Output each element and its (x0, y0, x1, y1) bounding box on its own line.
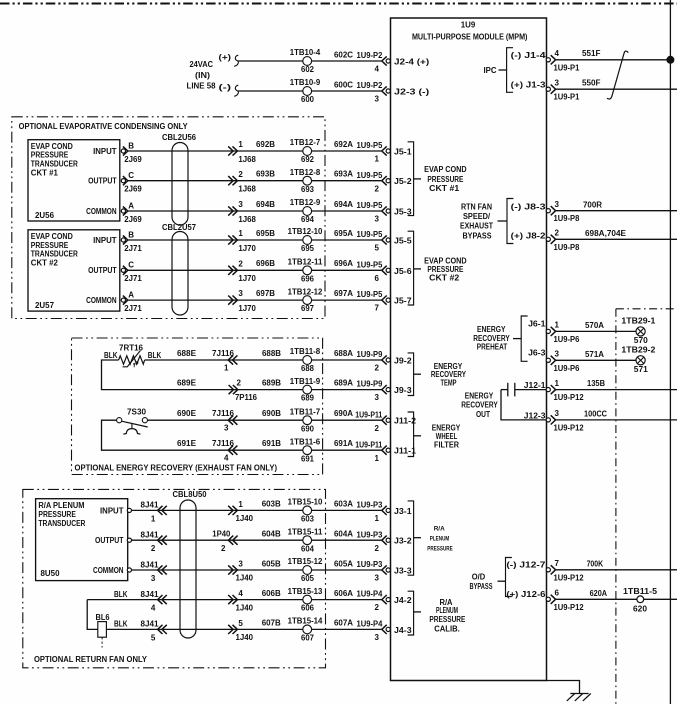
svg-text:24VAC: 24VAC (190, 60, 214, 69)
wire 100CC (556, 409, 677, 419)
svg-text:3: 3 (555, 200, 560, 209)
MPM pin J11-1 (355, 440, 416, 463)
svg-text:2J71: 2J71 (124, 244, 142, 253)
svg-text:2: 2 (375, 424, 380, 433)
pin C 2J71 (121, 261, 142, 284)
svg-text:8J41: 8J41 (141, 620, 160, 629)
wire 603A (312, 500, 382, 511)
svg-text:A: A (128, 201, 134, 210)
MPM pin (+) J12-6 (506, 589, 584, 612)
wire 691A (312, 439, 382, 450)
wire right bus (669, 0, 671, 704)
wire 696A (312, 259, 382, 270)
wire 600 (238, 90, 303, 92)
svg-text:1TB11-8: 1TB11-8 (290, 347, 321, 356)
terminal 1TB12-7 (290, 138, 321, 164)
svg-text:607B: 607B (262, 619, 281, 628)
node 24VAC (-) (219, 83, 239, 96)
wire 694B (128, 200, 303, 211)
svg-text:135B: 135B (587, 379, 605, 388)
svg-text:1TB29-2: 1TB29-2 (621, 345, 656, 354)
svg-text:1TB10-4: 1TB10-4 (290, 48, 321, 57)
pin B 2J71 (121, 230, 142, 253)
svg-text:1J70: 1J70 (238, 274, 256, 283)
svg-text:1: 1 (555, 321, 560, 330)
bracket IPC (484, 48, 514, 93)
svg-text:1: 1 (238, 500, 243, 509)
terminal 1TB15-10 (288, 498, 323, 524)
terminal 1TB15-14 (288, 617, 323, 643)
svg-text:TEMP: TEMP (441, 378, 457, 387)
wire 700K (556, 559, 677, 569)
svg-text:695A: 695A (334, 229, 353, 238)
terminal 1TB12-10 (288, 227, 323, 253)
svg-text:J3-2: J3-2 (394, 537, 412, 546)
transducer 8U50 (36, 499, 128, 581)
svg-text:550F: 550F (582, 79, 601, 88)
MPM pin (+) J1-3 (511, 78, 580, 101)
svg-text:7S30: 7S30 (127, 407, 147, 416)
svg-text:602C: 602C (334, 50, 353, 59)
svg-text:WHEEL: WHEEL (436, 432, 458, 441)
pin A 2J71 (121, 290, 142, 313)
svg-text:2: 2 (375, 364, 380, 373)
svg-text:2: 2 (238, 170, 243, 179)
wire 695A (312, 229, 382, 240)
svg-text:CBL8U50: CBL8U50 (173, 490, 208, 499)
svg-text:1: 1 (238, 229, 243, 238)
contact ENERGY RECOVERY OUT (501, 383, 546, 420)
svg-text:700K: 700K (587, 559, 604, 568)
wire 696B (128, 259, 303, 270)
svg-text:2U57: 2U57 (35, 301, 55, 310)
svg-text:1U9-P12: 1U9-P12 (554, 393, 585, 402)
svg-text:PRESSURE: PRESSURE (427, 265, 464, 274)
svg-text:1U9-P8: 1U9-P8 (554, 214, 580, 223)
ground (547, 681, 591, 701)
svg-text:1TB11-9: 1TB11-9 (290, 377, 321, 386)
svg-text:1TB12-12: 1TB12-12 (288, 287, 323, 296)
svg-text:691: 691 (301, 454, 314, 463)
svg-text:1TB15-11: 1TB15-11 (288, 527, 323, 536)
svg-text:TRANSDUCER: TRANSDUCER (31, 160, 78, 169)
svg-text:EVAP COND: EVAP COND (31, 142, 73, 151)
svg-text:1U9-P3: 1U9-P3 (357, 560, 383, 569)
svg-text:604: 604 (301, 544, 314, 553)
svg-text:7P116: 7P116 (235, 393, 258, 402)
wire 688E (145, 349, 303, 360)
svg-text:3: 3 (555, 409, 560, 418)
svg-text:OPTIONAL ENERGY RECOVERY (EXHA: OPTIONAL ENERGY RECOVERY (EXHAUST FAN ON… (75, 463, 278, 472)
connector 7J116 pin 4 (212, 439, 237, 463)
wire 689E (102, 351, 303, 390)
svg-text:OPTIONAL RETURN FAN ONLY: OPTIONAL RETURN FAN ONLY (34, 655, 148, 664)
connector 7J116 pin 3 (212, 409, 237, 433)
svg-text:694: 694 (301, 215, 314, 224)
svg-text:BLK: BLK (114, 590, 128, 599)
svg-text:J2-4 (+): J2-4 (+) (394, 57, 430, 66)
terminal 1TB12-11 (288, 257, 323, 283)
svg-text:1U9-P4: 1U9-P4 (357, 619, 383, 628)
svg-text:603B: 603B (262, 500, 281, 509)
svg-text:1J70: 1J70 (238, 304, 256, 313)
svg-text:693A: 693A (334, 170, 353, 179)
wire 607 BLK (106, 620, 302, 643)
svg-text:1TB12-7: 1TB12-7 (290, 138, 321, 147)
svg-text:COMMON: COMMON (86, 296, 117, 305)
svg-text:1U9-P4: 1U9-P4 (357, 590, 383, 599)
svg-text:3: 3 (151, 574, 156, 583)
svg-text:INPUT: INPUT (93, 236, 117, 245)
svg-text:1TB15-12: 1TB15-12 (288, 557, 323, 566)
transducer 2U57 (28, 230, 120, 311)
svg-text:OUTPUT: OUTPUT (88, 266, 117, 275)
wire 571A (556, 350, 637, 360)
svg-text:692B: 692B (256, 140, 275, 149)
wire 620A (556, 589, 677, 599)
wire 690A (312, 409, 382, 420)
svg-text:3: 3 (375, 633, 380, 642)
svg-text:693B: 693B (256, 170, 275, 179)
svg-text:CBL2U57: CBL2U57 (162, 223, 197, 232)
svg-text:4: 4 (375, 65, 380, 74)
svg-text:1J40: 1J40 (236, 633, 254, 642)
lamp BL6 (96, 613, 110, 648)
MPM pin J2-3 (-) (357, 81, 430, 104)
wire 600C (312, 80, 382, 91)
terminal 1TB15-13 (288, 587, 323, 613)
wire 135B (556, 379, 677, 389)
svg-text:OPTIONAL EVAPORATIVE CONDENSIN: OPTIONAL EVAPORATIVE CONDENSING ONLY (19, 122, 189, 131)
svg-text:J6-1: J6-1 (528, 320, 546, 329)
svg-text:1TB12-9: 1TB12-9 (290, 198, 321, 207)
svg-text:2J69: 2J69 (124, 185, 142, 194)
optional evaporative condensing boundary (12, 117, 325, 319)
pin 1 8J41 (127, 501, 303, 524)
MPM pin J6-3 (528, 349, 580, 373)
svg-text:605A: 605A (334, 559, 353, 568)
svg-text:551F: 551F (582, 49, 601, 58)
svg-text:EXHAUST: EXHAUST (460, 222, 493, 231)
bracket EVAP COND PRESSURE CKT #2 (408, 231, 467, 305)
svg-text:696B: 696B (256, 259, 275, 268)
svg-text:A: A (128, 290, 134, 299)
svg-text:J5-7: J5-7 (394, 297, 412, 306)
svg-text:694B: 694B (256, 200, 275, 209)
svg-text:TRANSDUCER: TRANSDUCER (31, 250, 78, 259)
svg-text:2U56: 2U56 (35, 211, 55, 220)
svg-text:1U9-P12: 1U9-P12 (554, 573, 585, 582)
svg-text:1U9-P12: 1U9-P12 (554, 603, 585, 612)
transducer 2U56 (28, 140, 120, 221)
node 24VAC (+) (219, 53, 239, 66)
svg-text:692A: 692A (334, 140, 353, 149)
svg-text:C: C (128, 261, 134, 270)
MPM pin (-) J12-7 (506, 559, 584, 582)
svg-text:605: 605 (301, 574, 314, 583)
svg-text:1U9-P12: 1U9-P12 (554, 423, 585, 432)
svg-text:INPUT: INPUT (93, 147, 117, 156)
svg-text:691B: 691B (262, 439, 281, 448)
svg-text:J4-2: J4-2 (394, 596, 412, 605)
svg-text:2: 2 (375, 544, 380, 553)
boundary 1TB29 terminal strip (616, 309, 675, 704)
svg-text:CKT #1: CKT #1 (429, 184, 460, 193)
svg-text:4: 4 (224, 454, 229, 463)
MPM pin J5-2 (357, 171, 413, 194)
svg-text:RECOVERY: RECOVERY (461, 401, 498, 410)
svg-text:ENERGY: ENERGY (432, 423, 461, 432)
wire 694A (312, 200, 382, 211)
svg-text:J2-3 (-): J2-3 (-) (394, 87, 430, 96)
svg-text:B: B (128, 141, 134, 150)
pin 2 8J41 (127, 530, 303, 553)
svg-text:J9-3: J9-3 (394, 386, 412, 395)
svg-text:1U9-P9: 1U9-P9 (357, 350, 383, 359)
svg-text:COMMON: COMMON (86, 207, 117, 216)
svg-text:BL6: BL6 (96, 613, 110, 622)
svg-text:606: 606 (301, 604, 314, 613)
svg-text:ENERGY: ENERGY (465, 391, 494, 400)
terminal 1TB12-8 (290, 168, 321, 194)
svg-text:620: 620 (633, 605, 648, 614)
MPM pin J4-3 (357, 619, 413, 642)
svg-text:688A: 688A (334, 349, 353, 358)
MPM pin J2-4 (+) (357, 51, 430, 74)
MPM pin J3-1 (357, 500, 413, 523)
connector 8J41 pin 5 (158, 625, 167, 634)
svg-text:5: 5 (238, 619, 243, 628)
terminal 1TB11-7 (290, 407, 321, 433)
wire 693B (128, 170, 303, 181)
svg-text:INPUT: INPUT (100, 506, 124, 515)
connector 1J68 pin 1 (228, 140, 256, 164)
pin B 2J69 (121, 141, 142, 164)
svg-text:7J116: 7J116 (212, 439, 235, 448)
wire 689A (312, 378, 382, 389)
svg-text:606A: 606A (334, 589, 353, 598)
svg-text:2J69: 2J69 (124, 155, 142, 164)
svg-text:OUT: OUT (476, 410, 490, 419)
svg-text:690A: 690A (334, 409, 353, 418)
svg-text:1TB11-6: 1TB11-6 (290, 437, 321, 446)
connector 1J40 pin 4 (228, 589, 253, 612)
terminal 1TB29-1 (621, 316, 656, 345)
connector 1J40 pin 1 (228, 500, 253, 523)
bracket ENERGY WHEEL FILTER (408, 412, 461, 457)
svg-text:600: 600 (301, 95, 314, 104)
svg-text:604B: 604B (262, 529, 281, 538)
svg-text:1TB29-1: 1TB29-1 (621, 316, 656, 325)
svg-text:(-) J1-4: (-) J1-4 (511, 51, 547, 60)
svg-text:689E: 689E (177, 378, 197, 387)
svg-text:CKT #2: CKT #2 (31, 258, 59, 267)
svg-text:B: B (128, 230, 134, 239)
svg-text:700R: 700R (583, 200, 602, 209)
svg-text:J3-3: J3-3 (394, 566, 412, 575)
connector 1P40 pin 2 (212, 530, 237, 553)
svg-text:691A: 691A (334, 439, 353, 448)
svg-text:3: 3 (555, 350, 560, 359)
svg-text:1U9-P6: 1U9-P6 (554, 364, 580, 373)
svg-text:2: 2 (375, 184, 380, 193)
svg-text:1: 1 (375, 514, 380, 523)
wire 695B (128, 229, 303, 240)
svg-text:BYPASS: BYPASS (470, 582, 493, 591)
cable CBL2U56 (162, 133, 197, 225)
terminal 1TB12-12 (288, 287, 323, 313)
MPM pin J12-3 (524, 409, 584, 432)
bracket R/A PLENUM PRESSURE CALIB. (408, 591, 466, 635)
svg-text:696: 696 (301, 274, 314, 283)
svg-text:1TB12-11: 1TB12-11 (288, 257, 323, 266)
svg-text:1TB15-10: 1TB15-10 (288, 498, 323, 507)
svg-text:BYPASS: BYPASS (463, 231, 493, 240)
svg-text:1TB12-8: 1TB12-8 (290, 168, 321, 177)
svg-text:1J40: 1J40 (236, 514, 254, 523)
svg-text:PRESSURE: PRESSURE (31, 241, 69, 250)
svg-text:3: 3 (238, 200, 243, 209)
svg-text:696A: 696A (334, 259, 353, 268)
label ENERGY RECOVERY OUT (461, 391, 498, 419)
svg-text:600C: 600C (334, 80, 353, 89)
svg-text:2: 2 (221, 544, 226, 553)
svg-text:J5-5: J5-5 (394, 236, 412, 245)
svg-text:8J41: 8J41 (141, 501, 160, 510)
svg-text:CKT #1: CKT #1 (31, 168, 59, 177)
svg-text:607: 607 (301, 633, 314, 642)
MPM pin J12-1 (524, 379, 584, 402)
svg-text:(+) J1-3: (+) J1-3 (511, 81, 546, 90)
wire 551F (556, 49, 671, 60)
wire 607A (312, 619, 382, 630)
svg-text:BLK: BLK (104, 351, 118, 360)
svg-text:(IN): (IN) (195, 71, 210, 80)
connector 1J70 pin 3 (228, 289, 256, 313)
wire 690E (148, 409, 303, 420)
svg-text:692: 692 (301, 155, 314, 164)
svg-text:605B: 605B (262, 559, 281, 568)
svg-text:606B: 606B (262, 589, 281, 598)
bracket EVAP COND PRESSURE CKT #1 (408, 142, 467, 216)
wire 606A (312, 589, 382, 600)
pin C 2J69 (121, 171, 142, 194)
svg-text:4: 4 (238, 589, 243, 598)
MPM pin J5-7 (357, 290, 413, 313)
MPM pin J9-2 (357, 350, 413, 373)
svg-text:RTN FAN: RTN FAN (461, 202, 492, 211)
wire 700R (556, 200, 677, 210)
svg-text:CKT #2: CKT #2 (429, 273, 460, 282)
svg-text:603: 603 (301, 514, 314, 523)
terminal 1TB12-9 (290, 198, 321, 224)
svg-text:5: 5 (151, 633, 156, 642)
svg-text:1TB15-14: 1TB15-14 (288, 617, 323, 626)
svg-text:J3-1: J3-1 (394, 507, 412, 516)
module 1U9 multi-purpose module (391, 18, 547, 681)
svg-text:100CC: 100CC (584, 409, 607, 418)
wire 570A (556, 321, 637, 331)
wire 693A (312, 170, 382, 181)
svg-text:J9-2: J9-2 (394, 356, 412, 365)
bracket RTN FAN SPEED / EXHAUST BYPASS (460, 199, 513, 244)
bracket O/D BYPASS (470, 558, 512, 597)
wire 688B (262, 349, 281, 358)
svg-text:697: 697 (301, 304, 314, 313)
svg-text:2: 2 (151, 544, 156, 553)
svg-text:3: 3 (375, 215, 380, 224)
svg-text:J5-6: J5-6 (394, 267, 412, 276)
svg-text:2J69: 2J69 (124, 215, 142, 224)
svg-text:1U9-P2: 1U9-P2 (357, 81, 383, 90)
connector 1J40 pin 3 (228, 559, 253, 582)
terminal 1TB10-4 (290, 48, 321, 74)
svg-text:PRESSURE: PRESSURE (38, 510, 76, 519)
terminal 1TB15-11 (288, 527, 323, 553)
svg-text:690B: 690B (262, 409, 281, 418)
svg-text:8J41: 8J41 (141, 530, 160, 539)
svg-text:6: 6 (375, 274, 380, 283)
svg-text:7: 7 (555, 559, 560, 568)
wire 604B (262, 529, 281, 538)
svg-text:7: 7 (375, 304, 380, 313)
MPM pin J5-5 (357, 230, 413, 253)
connector 8J41 pin 4 (158, 595, 167, 604)
svg-text:1U9-P1: 1U9-P1 (554, 93, 580, 102)
svg-text:CBL2U56: CBL2U56 (162, 133, 197, 142)
MPM pin J3-2 (357, 530, 413, 553)
cable CBL2U57 (162, 223, 197, 315)
svg-text:1TB11-5: 1TB11-5 (623, 587, 658, 596)
svg-text:689A: 689A (334, 378, 353, 387)
svg-text:1U9-P11: 1U9-P11 (355, 410, 382, 419)
svg-text:1U9-P5: 1U9-P5 (357, 260, 383, 269)
cable CBL8U50 (173, 490, 208, 638)
svg-text:PLENUM: PLENUM (436, 606, 458, 615)
MPM pin J5-3 (357, 201, 413, 224)
svg-text:695: 695 (301, 244, 314, 253)
MPM pin J5-1 (357, 141, 413, 164)
svg-text:J11-1: J11-1 (394, 447, 417, 456)
svg-text:4: 4 (151, 603, 156, 612)
svg-text:TRANSDUCER: TRANSDUCER (38, 519, 85, 528)
wire 607B (262, 619, 281, 628)
svg-text:J12-1: J12-1 (524, 381, 546, 390)
svg-text:607A: 607A (334, 619, 353, 628)
terminal 1TB11-8 (290, 347, 321, 373)
svg-text:1U9-P3: 1U9-P3 (357, 500, 383, 509)
svg-text:(-) J12-7: (-) J12-7 (506, 561, 546, 570)
svg-text:571A: 571A (585, 350, 604, 359)
svg-text:PRESSURE: PRESSURE (427, 175, 464, 184)
svg-text:8U50: 8U50 (41, 569, 61, 578)
wire 602 (238, 60, 303, 62)
svg-text:7J116: 7J116 (212, 349, 235, 358)
MPM pin (-) J8-3 (511, 200, 580, 223)
svg-text:FILTER: FILTER (434, 441, 459, 450)
svg-text:1J70: 1J70 (238, 244, 256, 253)
MPM pin J6-1 (528, 320, 580, 344)
svg-text:BLK: BLK (148, 351, 162, 360)
svg-text:3: 3 (238, 289, 243, 298)
svg-text:698A,704E: 698A,704E (585, 229, 627, 238)
svg-text:SPEED/: SPEED/ (463, 212, 491, 221)
svg-text:688E: 688E (177, 349, 197, 358)
connector 7P116 pin 2 (229, 379, 258, 402)
svg-text:1TB11-7: 1TB11-7 (290, 407, 321, 416)
bracket R/A PLENUM PRESSURE (408, 501, 454, 575)
svg-text:R/A: R/A (434, 525, 445, 532)
